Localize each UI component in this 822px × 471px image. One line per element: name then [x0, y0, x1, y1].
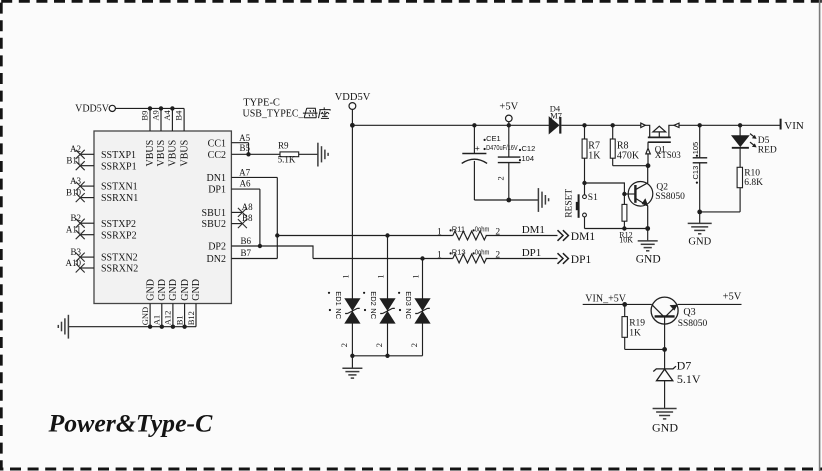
- junction ED1 bottom: [350, 354, 354, 358]
- wire DN1 vertical to DM line and B7: [276, 177, 278, 258]
- resistor R13 (zigzag 0ohm): [437, 247, 500, 263]
- wire DM horizontal: [277, 235, 453, 237]
- IC left pin designators: [66, 144, 82, 268]
- ground at Q2 emitter: [636, 229, 661, 266]
- pin A7 DN1 stub: [231, 176, 277, 178]
- pin A11 SSRXP2 stub: [80, 234, 94, 236]
- svg-text:SSTXN1: SSTXN1: [101, 182, 138, 193]
- svg-text:DM1: DM1: [571, 231, 596, 243]
- svg-text:C13: C13: [691, 166, 700, 180]
- svg-text:SS8050: SS8050: [678, 319, 708, 329]
- pin B9 VBUS stub: [149, 108, 151, 131]
- svg-text:6.8K: 6.8K: [744, 178, 763, 188]
- X B3: [76, 253, 85, 262]
- svg-text:VDD5V: VDD5V: [335, 92, 371, 103]
- svg-text:TYPE-C: TYPE-C: [243, 98, 280, 109]
- svg-text:GND: GND: [140, 307, 150, 325]
- resistor R11 (zigzag 0ohm): [437, 224, 500, 240]
- svg-text:VBUS: VBUS: [179, 140, 190, 167]
- svg-text:B2: B2: [70, 213, 81, 223]
- resistor R19 1K: [622, 304, 645, 349]
- pin A10 SSRXN2 stub: [80, 267, 94, 269]
- svg-text:Q2: Q2: [656, 182, 668, 192]
- resistor R12 10K: [619, 194, 633, 245]
- svg-text:SBU2: SBU2: [202, 219, 226, 230]
- svg-text:RED: RED: [758, 145, 777, 155]
- svg-text:1: 1: [437, 250, 442, 260]
- pin A12 GND stub: [172, 304, 174, 327]
- svg-text:C12: C12: [522, 144, 536, 153]
- svg-text:1: 1: [340, 274, 350, 278]
- svg-text:CC1: CC1: [208, 138, 226, 149]
- svg-text:VIN_+5V: VIN_+5V: [585, 294, 626, 305]
- X A11: [76, 230, 85, 239]
- pin B4 VBUS stub: [183, 108, 185, 131]
- wire CC1 down to CC2: [248, 143, 250, 155]
- svg-text:A12: A12: [163, 311, 173, 326]
- pin A2 SSTXP1 stub: [80, 153, 94, 155]
- capacitor C12: [496, 125, 536, 200]
- junction R7 bottom / S1: [582, 181, 586, 185]
- svg-text:GND: GND: [688, 237, 711, 248]
- svg-text:SSTXN2: SSTXN2: [101, 253, 138, 264]
- svg-text:RESET: RESET: [565, 189, 575, 218]
- diode D4 M7: [549, 103, 562, 133]
- wire VDD5V to VBUS pins: [115, 107, 184, 109]
- wire S1 bottom rail to Q2 emitter: [585, 228, 648, 230]
- LED D5 RED: [732, 125, 777, 167]
- IC pin names left column: [101, 150, 138, 275]
- svg-text:M7: M7: [550, 110, 562, 120]
- pin B7 DN2 stub: [231, 258, 277, 260]
- pin A1 GND stub: [161, 304, 163, 327]
- junctions IC gnd pins: [148, 325, 187, 329]
- svg-text:GND: GND: [180, 279, 191, 301]
- svg-text:2: 2: [409, 343, 419, 347]
- svg-text:SSRXN1: SSRXN1: [101, 193, 138, 204]
- resistor R10 6.8K: [737, 167, 763, 212]
- svg-text:1: 1: [411, 274, 421, 278]
- svg-text:2: 2: [496, 176, 506, 180]
- capacitor CE1 electrolytic: [462, 125, 518, 200]
- IC pin names GND rotated: [145, 279, 202, 301]
- X B8 SBU2: [238, 219, 247, 228]
- junction CC: [246, 152, 250, 156]
- svg-text:R9: R9: [278, 141, 289, 151]
- svg-text:DN2: DN2: [207, 254, 226, 265]
- junction DP1/DP2: [258, 244, 262, 248]
- svg-text:CE1: CE1: [486, 134, 501, 143]
- svg-text:NC: NC: [369, 308, 378, 319]
- wire DP horizontal to R13: [313, 258, 453, 260]
- svg-text:GND: GND: [652, 420, 678, 434]
- svg-text:104: 104: [522, 154, 535, 163]
- power-port +5V (top): [499, 101, 518, 125]
- svg-text:A6: A6: [240, 179, 251, 189]
- wire ED2 vertical from DM: [387, 236, 389, 299]
- svg-text:0ohm: 0ohm: [475, 224, 490, 233]
- wire R9 to ground: [299, 153, 318, 155]
- svg-text:+5V: +5V: [499, 101, 518, 112]
- svg-text:105: 105: [691, 142, 700, 155]
- wire Q3 to +5V: [678, 303, 742, 305]
- svg-text:A2: A2: [70, 144, 81, 154]
- svg-text:XTS03: XTS03: [655, 150, 682, 160]
- svg-text:B1: B1: [174, 315, 184, 325]
- capacitor C13 105: [691, 125, 707, 212]
- terminal VIN: [781, 119, 804, 132]
- pin GND stub (shell): [149, 304, 151, 327]
- svg-text:10K: 10K: [619, 236, 633, 245]
- svg-text:A1: A1: [152, 315, 162, 325]
- wire ED1 vertical from VDD5V: [351, 125, 353, 298]
- wire IC gnd rail: [68, 326, 196, 328]
- ground at D7: [652, 409, 678, 435]
- X B2: [76, 219, 85, 228]
- X A2: [76, 150, 85, 159]
- IC top pin designators (rotated): [140, 109, 184, 120]
- IC U? USB Type-C connector body: [94, 131, 231, 304]
- svg-text:CC2: CC2: [208, 150, 226, 161]
- svg-text:ED2: ED2: [369, 291, 378, 306]
- X A8 SBU1: [238, 208, 247, 217]
- svg-text:SBU1: SBU1: [202, 208, 226, 219]
- svg-text:VBUS: VBUS: [145, 140, 156, 167]
- junction base node: [622, 192, 626, 196]
- pin B11 SSRXP1 stub: [80, 165, 94, 167]
- wire ED ground rail: [352, 355, 422, 357]
- svg-text:VDD5V: VDD5V: [75, 104, 110, 115]
- right gray edge line: [819, 0, 821, 471]
- CJK glyph mu: [303, 108, 318, 117]
- wire ED3 vertical from DP: [422, 259, 424, 299]
- port DP1: [558, 253, 592, 266]
- svg-text:470K: 470K: [617, 151, 640, 162]
- svg-text:VBUS: VBUS: [156, 140, 167, 167]
- wire R11 out to port DM1: [486, 235, 558, 237]
- svg-text:A7: A7: [239, 168, 250, 178]
- svg-text:A4: A4: [162, 109, 172, 120]
- ground at C13/R10: [688, 212, 712, 248]
- svg-text:SSRXN2: SSRXN2: [101, 264, 138, 275]
- pin A9 VBUS stub: [160, 108, 162, 131]
- pin A8 SBU1 stub: [231, 211, 242, 213]
- svg-text:DN1: DN1: [207, 173, 226, 184]
- svg-text:USB_TYPEC_: USB_TYPEC_: [243, 109, 305, 120]
- svg-text:SSTXP2: SSTXP2: [101, 219, 136, 230]
- pin B10 SSRXN1 stub: [80, 197, 94, 199]
- svg-text:A10: A10: [66, 258, 82, 268]
- junction ED2/DM: [385, 233, 389, 237]
- svg-text:A8: A8: [242, 202, 253, 212]
- wire DP2 to step: [260, 246, 313, 259]
- wire R19 bottom to base node: [625, 348, 665, 350]
- junction dots on rail: [350, 123, 742, 128]
- svg-text:VIN: VIN: [784, 120, 804, 132]
- svg-text:2: 2: [339, 343, 349, 347]
- pin B6 DP2 stub: [231, 245, 260, 247]
- svg-text:B10: B10: [66, 187, 82, 197]
- svg-text:2: 2: [374, 343, 384, 347]
- svg-text:D7: D7: [677, 359, 692, 373]
- svg-text:DP1: DP1: [571, 254, 592, 266]
- svg-text:B12: B12: [186, 311, 196, 325]
- power-port VDD5V (left): [75, 104, 115, 115]
- svg-text:1K: 1K: [588, 151, 601, 162]
- svg-text:NC: NC: [404, 308, 413, 319]
- svg-text:DP1: DP1: [522, 247, 542, 259]
- svg-text:Q3: Q3: [683, 307, 695, 318]
- X B10: [76, 193, 85, 202]
- transistor Q3 SS8050: [651, 297, 678, 349]
- svg-text:1: 1: [376, 274, 386, 278]
- IC pin names VBUS rotated: [145, 140, 190, 167]
- junction ED2 bottom: [385, 354, 389, 358]
- TVS diode ED1: [328, 274, 360, 347]
- svg-text:2: 2: [495, 227, 500, 237]
- pin B12 GND stub: [195, 304, 197, 327]
- svg-text:GND: GND: [636, 253, 661, 265]
- junction DN: [275, 233, 279, 237]
- wire caps bottom rail to ground: [474, 199, 538, 201]
- junction ED3/DP: [420, 256, 424, 260]
- svg-text:GND: GND: [168, 279, 179, 301]
- wire R10 bottom to C13: [700, 211, 740, 213]
- svg-text:ED1: ED1: [334, 291, 343, 306]
- junction Q3 base / D7: [662, 347, 667, 352]
- svg-text:B6: B6: [241, 236, 252, 246]
- svg-text:GND: GND: [145, 279, 156, 301]
- svg-text:A5: A5: [239, 133, 250, 143]
- svg-text:Power&Type-C: Power&Type-C: [48, 409, 214, 438]
- junction Q1 gate / R8 / Q2 collector: [646, 163, 651, 168]
- svg-text:B3: B3: [70, 247, 81, 257]
- port DM1: [558, 230, 596, 243]
- pin B8 SBU2 stub: [231, 223, 242, 225]
- resistor R8 470K: [610, 125, 640, 165]
- svg-text:1: 1: [437, 227, 442, 237]
- pin A6 DP1 stub: [231, 188, 260, 190]
- junction R19 top: [622, 302, 627, 307]
- svg-text:S1: S1: [588, 193, 598, 203]
- wire R7 node to base node: [585, 183, 625, 194]
- ground (rotated right) at R9: [318, 143, 328, 167]
- wire R13 out to port DP1: [486, 258, 558, 260]
- ground (rotated right) at caps: [538, 188, 548, 212]
- X A10: [76, 264, 85, 273]
- svg-text:0ohm: 0ohm: [475, 247, 490, 256]
- svg-text:SSTXP1: SSTXP1: [101, 150, 136, 161]
- IC right pin designators: [239, 133, 253, 258]
- svg-text:SSRXP2: SSRXP2: [101, 230, 137, 241]
- svg-text:R13: R13: [452, 247, 466, 256]
- pin A4 VBUS stub: [171, 108, 173, 131]
- MOSFET Q1 XTS03: [641, 123, 679, 166]
- svg-text:1K: 1K: [629, 328, 641, 338]
- pin B1 GND stub: [184, 304, 186, 327]
- svg-text:GND: GND: [157, 279, 168, 301]
- svg-text:D470uF/16V: D470uF/16V: [486, 143, 518, 152]
- IC bottom pin designators (rotated): [140, 307, 196, 325]
- wire DP1 vertical: [259, 189, 261, 246]
- svg-text:+5V: +5V: [723, 291, 742, 302]
- svg-text:R10: R10: [744, 168, 760, 178]
- svg-text:NC: NC: [334, 308, 343, 319]
- svg-text:VBUS: VBUS: [168, 140, 179, 167]
- pin B3 SSTXN2 stub: [80, 256, 94, 258]
- svg-text:A11: A11: [66, 225, 81, 235]
- svg-text:B11: B11: [66, 156, 81, 166]
- transistor Q2 SS8050: [628, 166, 653, 229]
- svg-text:+: +: [475, 143, 480, 153]
- resistor R9 (box style): [278, 141, 299, 165]
- svg-text:5.1K: 5.1K: [278, 155, 296, 165]
- IC pin names right column: [202, 138, 226, 265]
- wire R8 to Q1 gate node: [613, 165, 648, 167]
- svg-text:B9: B9: [140, 111, 150, 121]
- pin B2 SSTXP2 stub: [80, 222, 94, 224]
- power-port VDD5V (middle): [335, 92, 371, 126]
- switch S1 RESET: [565, 183, 598, 229]
- svg-text:R11: R11: [452, 224, 465, 233]
- svg-text:2: 2: [495, 250, 500, 260]
- wire ED bottoms to rail: [352, 323, 422, 356]
- junction R12 bottom: [622, 226, 626, 230]
- svg-text:A3: A3: [70, 176, 81, 186]
- X A3: [76, 182, 85, 191]
- TVS diode ED2: [363, 274, 395, 347]
- resistor R7 1K: [582, 125, 601, 183]
- svg-text:B8: B8: [242, 213, 253, 223]
- TVS diode ED3: [398, 274, 430, 347]
- CJK glyph zuo: [319, 107, 331, 118]
- svg-text:A9: A9: [151, 110, 161, 120]
- wire main +5V rail: [352, 124, 549, 126]
- no-connect X marks on unused pins: [76, 150, 247, 273]
- svg-text:DP2: DP2: [208, 242, 226, 253]
- X B11: [76, 161, 85, 170]
- wire VDD5V stem: [351, 109, 353, 125]
- svg-text:DM1: DM1: [522, 224, 545, 236]
- ground at ED diodes: [342, 368, 362, 378]
- svg-text:DP1: DP1: [208, 185, 226, 196]
- svg-text:B4: B4: [174, 110, 184, 121]
- wire rail after D4: [561, 124, 641, 126]
- junction Q2 emitter bottom: [645, 226, 650, 231]
- svg-text:SS8050: SS8050: [655, 192, 685, 202]
- svg-text:SSRXP1: SSRXP1: [101, 161, 137, 172]
- ground (rotated left) at IC: [58, 315, 68, 339]
- wire VIN_+5V to Q3: [583, 303, 652, 305]
- wire CC2 to R9: [249, 153, 281, 155]
- wire rail after Q1 to VIN: [679, 124, 781, 126]
- junction C13 bottom: [697, 210, 702, 215]
- junction C12 bottom: [506, 198, 511, 203]
- wire base node to Q2 base: [624, 193, 634, 195]
- svg-text:GND: GND: [191, 279, 202, 301]
- svg-text:ED3: ED3: [404, 291, 413, 306]
- svg-text:5.1V: 5.1V: [677, 372, 701, 386]
- svg-text:B7: B7: [241, 248, 252, 258]
- wire ED gnd stem: [351, 356, 353, 368]
- pin A3 SSTXN1 stub: [80, 185, 94, 187]
- zener diode D7 5.1V: [653, 349, 701, 408]
- svg-text:R19: R19: [629, 319, 645, 329]
- pin A5 CC1 stub: [231, 142, 248, 144]
- junctions VBUS stubs: [148, 106, 175, 110]
- pin B5 CC2 stub: [231, 153, 248, 155]
